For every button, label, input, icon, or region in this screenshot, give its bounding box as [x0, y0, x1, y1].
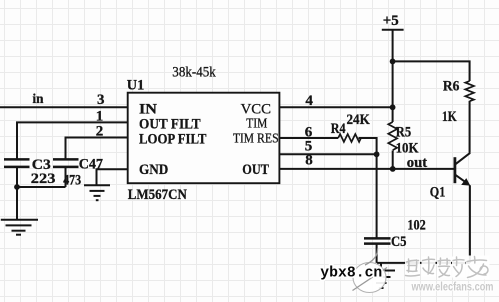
svg-text:OUT: OUT: [242, 162, 269, 178]
ground below C3: [1, 220, 38, 235]
wire bus to ground: [16, 187, 18, 220]
wire C3 bottom: [16, 167, 18, 187]
wire pin5: [279, 153, 376, 155]
svg-text:OUT FILT: OUT FILT: [139, 117, 201, 133]
svg-text:R6: R6: [443, 78, 460, 94]
wire C47 bottom: [65, 167, 67, 187]
wire pin4 VCC: [279, 106, 392, 108]
svg-text:TIM: TIM: [233, 132, 254, 147]
svg-text:LOOP FILT: LOOP FILT: [139, 132, 206, 148]
ground GND pin: [84, 185, 110, 200]
wire ground bus C3-C47: [17, 186, 66, 188]
wire C5 bottom: [376, 244, 378, 263]
svg-text:38k-45k: 38k-45k: [172, 65, 216, 81]
wire pin8 out: [279, 168, 455, 170]
svg-text:RES: RES: [257, 132, 279, 147]
wire R4 to C5 column: [359, 138, 377, 238]
wire R5 bottom: [392, 151, 394, 169]
svg-text:8: 8: [305, 152, 313, 168]
svg-text:+5: +5: [383, 13, 399, 29]
svg-text:1K: 1K: [442, 109, 457, 125]
wire pin2 to C47: [66, 138, 128, 160]
node junction pin5/R4: [374, 151, 380, 157]
wire ground C drop: [380, 263, 382, 271]
svg-text:C47: C47: [79, 156, 104, 172]
resistor R6: [465, 81, 474, 101]
wire pin3 input net: [0, 106, 128, 108]
node junction C3 ground bus: [14, 184, 20, 190]
wire R6 to collector: [469, 101, 471, 153]
svg-text:www.elecfans.com: www.elecfans.com: [411, 282, 494, 294]
svg-text:2: 2: [96, 123, 104, 139]
node junction R5/out: [390, 166, 396, 172]
wire emitter vertical: [469, 185, 471, 263]
watermark elecfans glyphs: [405, 256, 490, 280]
svg-text:ybx8.cn: ybx8.cn: [320, 266, 382, 282]
svg-text:3: 3: [97, 92, 105, 108]
svg-text:223: 223: [31, 171, 56, 187]
wire GND pin to ground: [97, 169, 128, 185]
svg-text:R4: R4: [331, 121, 346, 137]
capacitor C3: [4, 159, 30, 167]
svg-text:TIM: TIM: [246, 116, 267, 131]
watermark ybx8 logo circle: [353, 249, 388, 293]
svg-text:24K: 24K: [347, 112, 371, 128]
svg-text:4: 4: [305, 93, 313, 109]
svg-text:102: 102: [407, 218, 425, 234]
svg-text:U1: U1: [127, 78, 145, 94]
svg-text:R5: R5: [396, 125, 411, 141]
node junction pin4/+5: [390, 104, 396, 110]
wire R6 branch: [393, 61, 470, 81]
wire +5 vertical: [392, 30, 394, 122]
op-amp U1 IC box LM567CN: [128, 93, 280, 184]
svg-text:LM567CN: LM567CN: [128, 187, 187, 203]
resistor R4: [338, 134, 361, 142]
wire pin1 to C3: [17, 122, 128, 159]
svg-text:GND: GND: [139, 162, 168, 178]
wire pin6 to R4: [279, 137, 338, 139]
capacitor C47: [53, 159, 79, 167]
svg-text:473: 473: [63, 173, 81, 189]
capacitor C5: [364, 238, 391, 243]
svg-text:in: in: [33, 92, 44, 107]
wire emitter to ground node: [377, 262, 470, 264]
svg-text:out: out: [407, 155, 428, 171]
wire +5 supply bar: [382, 29, 404, 31]
ground below C5: [367, 271, 395, 289]
svg-text:C5: C5: [391, 234, 407, 250]
node junction R6 branch: [390, 59, 396, 65]
svg-text:Q1: Q1: [430, 184, 446, 200]
resistor R5: [388, 122, 397, 150]
svg-text:IN: IN: [139, 101, 157, 117]
svg-text:1: 1: [96, 108, 104, 124]
transistor Q1: [455, 153, 470, 186]
svg-text:VCC: VCC: [241, 101, 271, 117]
